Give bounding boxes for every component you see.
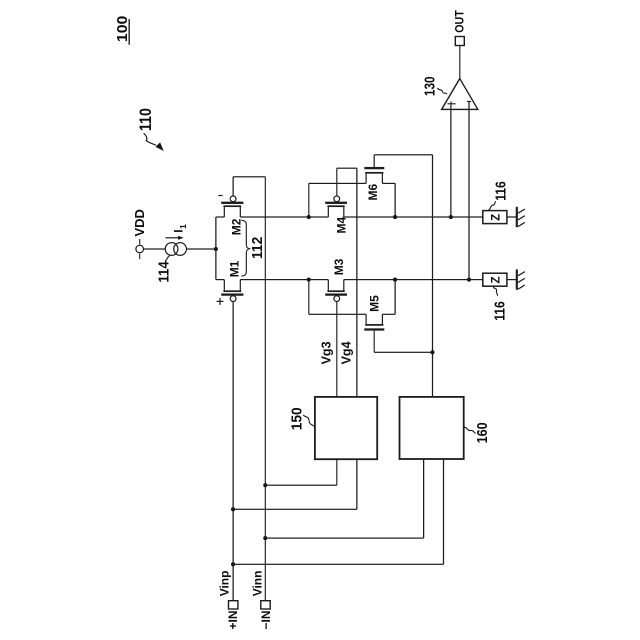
wire column L lower (M3 to Z block B) (344, 279, 483, 281)
ground B (517, 269, 525, 289)
junction dot feed3 (263, 536, 267, 540)
wire Z block B to ground (507, 279, 516, 281)
wire Vinp from +IN to M1 gate (232, 302, 234, 601)
wire Vg4 bus (356, 168, 358, 397)
transistor M1 (216, 260, 244, 301)
wire bus into box160 (432, 155, 434, 397)
svg-text:Vg4: Vg4 (340, 341, 354, 364)
ground A (517, 207, 525, 227)
transistor M5 (309, 280, 395, 330)
svg-text:OUT: OUT (454, 10, 466, 33)
svg-text:114: 114 (156, 261, 173, 283)
svg-text:100: 100 (114, 16, 131, 43)
wire op-amp plus input (450, 106, 452, 217)
wire column L upper (M1 drain to M3) (240, 279, 328, 281)
wire M6 gate to bus160 (374, 155, 432, 167)
svg-text:M1: M1 (227, 260, 241, 277)
label 116 left (491, 287, 508, 321)
svg-text:M4: M4 (335, 217, 349, 234)
junction dot node R lower (393, 215, 397, 219)
wire Vg3 bus (336, 302, 338, 397)
wire source rail (215, 217, 217, 280)
-IN terminal (251, 571, 273, 630)
wire column R lower (M4 to Z block A) (344, 216, 483, 218)
transistor M4 (325, 196, 348, 234)
svg-text:1: 1 (178, 224, 188, 229)
wire Vinn riser (233, 176, 265, 178)
svg-text:116: 116 (493, 181, 510, 201)
Z block B (left column) (483, 273, 507, 286)
wire feed Vinn to box150 (265, 459, 337, 485)
minus mark op-amp input (467, 100, 471, 102)
svg-text:110: 110 (137, 108, 155, 131)
junction dot tail node (214, 247, 218, 251)
svg-text:−IN: −IN (259, 610, 273, 629)
wire feed Vinp to box150 (233, 459, 357, 509)
wire M5 gate to bus160 (374, 331, 432, 353)
op-amp 130 (421, 76, 477, 109)
svg-text:160: 160 (474, 422, 491, 443)
junction dot feed2 (231, 507, 235, 511)
svg-text:Vg3: Vg3 (319, 341, 333, 364)
svg-text:Z: Z (491, 214, 503, 221)
label 116 right (488, 181, 509, 210)
wire M2 gate to Vinn riser (232, 177, 234, 196)
plus mark at M1 gate (217, 298, 224, 305)
wire column R upper (M2 drain to M4) (240, 216, 328, 218)
current arrow I1 (166, 224, 188, 240)
label 114 (156, 255, 173, 282)
wire feed Vinp to box160 (233, 459, 443, 564)
svg-text:M6: M6 (366, 184, 380, 201)
plus mark op-amp input (447, 102, 455, 107)
svg-text:Z: Z (491, 276, 503, 283)
wire op-amp output (459, 46, 461, 79)
svg-text:130: 130 (421, 76, 438, 96)
svg-text:150: 150 (288, 407, 305, 430)
junction dot node L lower (393, 278, 397, 282)
wire Vinn from -IN to riser (264, 177, 266, 601)
OUT terminal (454, 10, 466, 45)
junction dot feed1 (263, 483, 267, 487)
junction dot node L upper (307, 278, 311, 282)
transistor M2 (216, 196, 244, 235)
junction dot op-amp minus tap (467, 278, 471, 282)
wire M4 gate over to Vg4 (337, 168, 357, 196)
current source 114 (165, 243, 186, 256)
wire Z block A to ground (507, 216, 516, 218)
figure label 100 (114, 16, 131, 45)
junction dot op-amp plus tap (449, 215, 453, 219)
box 160 (400, 397, 491, 459)
junction dot node R upper (307, 215, 311, 219)
svg-text:112: 112 (249, 237, 266, 259)
+IN terminal (218, 571, 241, 630)
svg-text:+IN: +IN (226, 610, 240, 629)
transistor M6 (309, 168, 395, 217)
svg-text:Vinp: Vinp (218, 571, 232, 597)
svg-text:116: 116 (491, 301, 508, 321)
brace 112 (241, 220, 249, 276)
Z block A (right column) (483, 211, 507, 224)
callout 110 with leader arrow (137, 108, 164, 151)
svg-text:M3: M3 (332, 258, 346, 275)
minus mark at M2 gate (218, 195, 222, 197)
transistor M3 (325, 258, 347, 301)
box 150 (288, 397, 377, 459)
VDD terminal (132, 209, 147, 259)
svg-text:Vinn: Vinn (251, 571, 265, 597)
junction dot M5 gate on bus (430, 350, 434, 354)
wire current source to tail node (186, 248, 215, 250)
svg-text:VDD: VDD (132, 209, 147, 236)
wire VDD to current source (144, 248, 166, 250)
wire op-amp minus input (468, 101, 470, 279)
wire feed Vinn to box160 (265, 459, 423, 538)
svg-text:M5: M5 (368, 295, 382, 312)
junction dot feed4 (231, 562, 235, 566)
